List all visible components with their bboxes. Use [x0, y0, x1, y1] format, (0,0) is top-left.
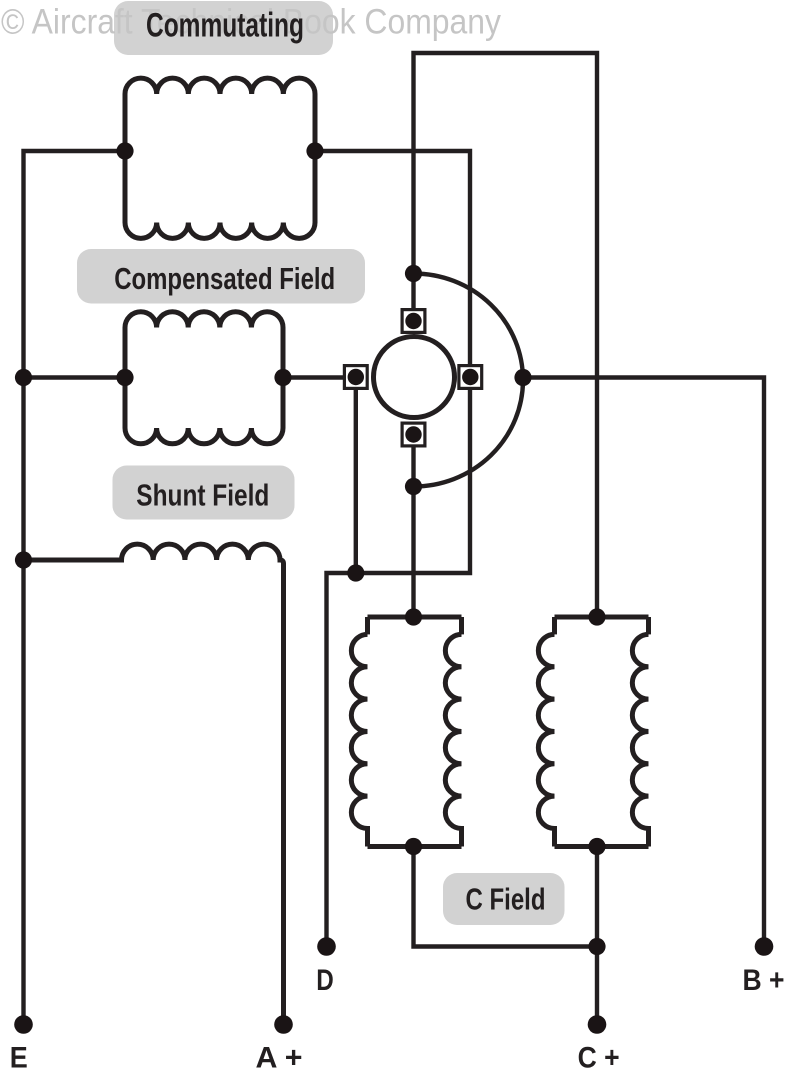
brush dot right — [462, 369, 478, 385]
svg-text:C +: C + — [578, 1042, 620, 1075]
wire: left C coil bottom to C junction — [414, 847, 598, 947]
brush dot bottom — [405, 426, 421, 442]
brush bottom — [402, 423, 425, 446]
junction arc top — [405, 265, 422, 282]
junction rail-compensated — [15, 369, 32, 386]
wire: equalizer to B+ — [523, 378, 764, 947]
wire: bottom brush down to left C coil — [411, 435, 415, 618]
junction left C top — [405, 608, 422, 625]
svg-text:E: E — [10, 1042, 28, 1075]
label pill: C Field — [443, 873, 565, 925]
label pill: Shunt Field — [113, 466, 295, 520]
junction left C bottom — [405, 838, 422, 855]
brush left — [344, 366, 367, 389]
junction right C top — [588, 608, 605, 625]
junction arc right — [514, 369, 531, 386]
svg-text:Compensated Field: Compensated Field — [114, 261, 335, 296]
coil: C Field right winding — [555, 615, 649, 620]
wire: top loop from top brush over to right C coil — [414, 53, 598, 617]
junction arc bottom — [405, 478, 422, 495]
svg-text:Shunt Field: Shunt Field — [136, 478, 269, 513]
brush dot left — [348, 369, 364, 385]
junction compensated left — [116, 369, 133, 386]
junction rail-shunt — [15, 551, 32, 568]
label pill: Commutating — [114, 1, 333, 55]
junction commutating left — [116, 142, 133, 159]
terminal dot A+ — [274, 1015, 293, 1034]
terminal dot E — [14, 1015, 33, 1034]
brush right — [459, 366, 482, 389]
wire: right C coil bottom to C+ — [595, 847, 599, 1025]
terminal dot C+ — [588, 1015, 607, 1034]
terminal dot D — [317, 937, 336, 956]
junction compensated right — [274, 369, 291, 386]
wire: left rail from commutating to E — [24, 151, 126, 1025]
svg-text:D: D — [316, 964, 334, 997]
equalizer arc — [414, 274, 524, 487]
coil: Shunt Field winding — [24, 544, 284, 1024]
junction left-brush D wire — [347, 564, 364, 581]
coil: Commutating winding — [125, 78, 315, 94]
wire: compensated field to left brush — [283, 375, 344, 379]
junction right C bottom — [588, 838, 605, 855]
svg-text:A +: A + — [256, 1042, 303, 1075]
brush top — [402, 310, 425, 333]
junction commutating right — [306, 142, 323, 159]
wire: left brush down to junction — [354, 377, 358, 573]
label pill: Compensated Field — [77, 249, 365, 304]
terminal dot B+ — [755, 937, 774, 956]
junction C-field common — [588, 938, 605, 955]
wire: rail to compensated field — [24, 375, 126, 379]
brush dot top — [405, 313, 421, 329]
svg-text:C Field: C Field — [466, 882, 546, 917]
armature circle — [374, 337, 455, 418]
coil: Compensated Field winding — [125, 312, 283, 328]
svg-text:Commutating: Commutating — [146, 7, 304, 45]
wire: commutating right to right brush column down to D — [315, 151, 470, 947]
coil: C Field left winding — [368, 615, 462, 620]
svg-text:B +: B + — [743, 964, 785, 997]
